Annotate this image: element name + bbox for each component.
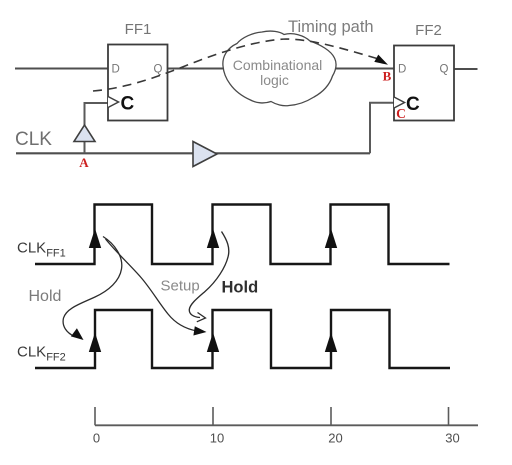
hold annotation curve (left) xyxy=(63,237,122,337)
svg-text:0: 0 xyxy=(93,431,100,446)
flip-flop FF1 box xyxy=(108,45,168,121)
CLKFF2 waveform xyxy=(35,310,450,368)
wire: data input into FF1 D xyxy=(15,68,108,70)
axis tick 10 xyxy=(212,407,214,425)
dashed timing path curve xyxy=(93,39,377,91)
svg-text:Hold: Hold xyxy=(222,279,259,297)
CLKFF2 rising edge arrow 1 xyxy=(89,333,101,353)
wire: CLK main line xyxy=(16,152,370,154)
wire: FF2 Q output xyxy=(454,68,478,70)
axis tick 30 xyxy=(448,407,450,425)
time axis line xyxy=(95,424,478,426)
svg-text:A: A xyxy=(79,155,89,170)
axis tick 0 xyxy=(94,407,96,425)
wire: CLK branch up to FF1 clock pin xyxy=(85,103,109,153)
svg-text:10: 10 xyxy=(210,431,224,446)
svg-text:30: 30 xyxy=(445,431,459,446)
svg-text:CLK: CLK xyxy=(15,129,52,150)
svg-text:Setup: Setup xyxy=(161,278,200,295)
wire: FF1 Q to FF2 D (passes under cloud) xyxy=(168,68,395,70)
svg-text:D: D xyxy=(112,64,120,76)
svg-text:20: 20 xyxy=(328,431,342,446)
hold-left arrowhead xyxy=(71,328,84,340)
CLKFF1 waveform xyxy=(35,205,450,265)
svg-text:Combinational: Combinational xyxy=(233,57,323,73)
svg-text:Q: Q xyxy=(440,64,449,76)
setup open arrowhead xyxy=(197,313,206,322)
wire: CLK vertical riser to FF2 clock pin xyxy=(370,103,394,154)
setup annotation curve xyxy=(189,232,229,318)
svg-text:C: C xyxy=(406,94,420,115)
svg-text:C: C xyxy=(396,106,406,121)
hold annotation curve (cross, FF1 edge1 to FF2 edge2) xyxy=(106,239,198,331)
FF1 clock wedge xyxy=(108,97,119,108)
FF2 clock wedge xyxy=(394,97,405,108)
svg-text:FF2: FF2 xyxy=(415,22,442,39)
combinational logic cloud xyxy=(223,31,336,106)
hold-cross arrowhead xyxy=(193,326,206,335)
svg-text:B: B xyxy=(383,69,392,84)
timing path arrowhead xyxy=(374,55,388,65)
CLKFF1 rising edge arrow 1 xyxy=(89,229,101,249)
svg-text:C: C xyxy=(121,94,135,115)
axis tick 20 xyxy=(330,407,332,425)
svg-text:logic: logic xyxy=(260,72,289,88)
svg-text:FF1: FF1 xyxy=(125,21,152,38)
CLKFF2 rising edge arrow 2 xyxy=(207,333,219,353)
CLKFF1 rising edge arrow 2 xyxy=(207,229,219,249)
svg-text:Q: Q xyxy=(154,64,163,76)
svg-text:Timing path: Timing path xyxy=(288,18,374,36)
clock buffer (up-pointing) at node A xyxy=(74,125,95,142)
svg-text:Hold: Hold xyxy=(29,288,62,305)
CLKFF1 rising edge arrow 3 xyxy=(325,229,337,249)
clock buffer (right-pointing) on CLK line xyxy=(193,142,217,167)
flip-flop FF2 box xyxy=(394,46,454,121)
svg-text:D: D xyxy=(398,64,406,76)
CLKFF2 rising edge arrow 3 xyxy=(325,333,337,353)
